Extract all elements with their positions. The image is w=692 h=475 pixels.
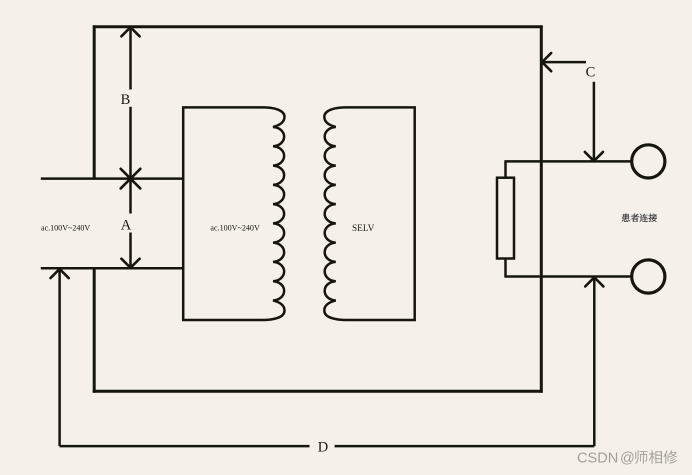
dimension line C horizontal <box>541 61 586 64</box>
arrow D left up <box>51 269 69 278</box>
transformer T1 primary winding <box>183 107 284 320</box>
patient connection terminal lower <box>632 260 665 293</box>
watermark user (师相修) <box>635 450 677 463</box>
svg-text:ac.100V~240V: ac.100V~240V <box>210 222 260 232</box>
enclosure right edge <box>540 25 543 392</box>
svg-text:@: @ <box>620 451 635 467</box>
dimension line B segment upper <box>129 27 132 90</box>
wire resistor top stub <box>504 161 507 177</box>
wire patient upper <box>504 160 630 163</box>
resistor R1 body <box>497 178 514 259</box>
arrow C left <box>542 53 551 71</box>
enclosure left edge lower segment <box>93 268 96 393</box>
dimension line A segment lower <box>129 233 132 268</box>
svg-text:ac.100V~240V: ac.100V~240V <box>41 222 91 232</box>
node X mains junction <box>121 169 141 189</box>
wire patient lower <box>504 275 630 278</box>
dimension line C vertical <box>593 82 596 161</box>
enclosure left edge upper segment <box>93 25 96 178</box>
dimension line D horizontal left segment <box>60 445 310 448</box>
arrow B up <box>121 27 139 36</box>
wire mains upper input <box>41 177 185 180</box>
svg-text:D: D <box>318 440 328 456</box>
label patient connection (患者连接) <box>622 214 657 222</box>
arrow D right up <box>585 277 603 286</box>
dimension line D horizontal right segment <box>335 445 595 448</box>
wire mains lower input <box>41 267 185 270</box>
patient connection terminal upper <box>632 145 665 178</box>
dimension line D left vertical <box>58 269 61 447</box>
svg-text:C: C <box>586 65 596 81</box>
enclosure top edge <box>93 25 543 28</box>
arrow C down <box>585 152 603 161</box>
transformer T1 secondary winding <box>324 107 414 320</box>
arrow A down <box>121 259 139 268</box>
wire resistor bottom stub <box>504 259 507 277</box>
svg-text:B: B <box>121 92 131 108</box>
svg-text:SELV: SELV <box>352 224 375 234</box>
enclosure bottom edge <box>93 390 543 393</box>
svg-text:CSDN: CSDN <box>577 451 618 467</box>
dimension line B segment lower <box>129 107 132 179</box>
svg-text:A: A <box>121 218 132 234</box>
dimension line D right vertical <box>593 277 596 446</box>
dimension line A segment upper <box>129 179 132 214</box>
